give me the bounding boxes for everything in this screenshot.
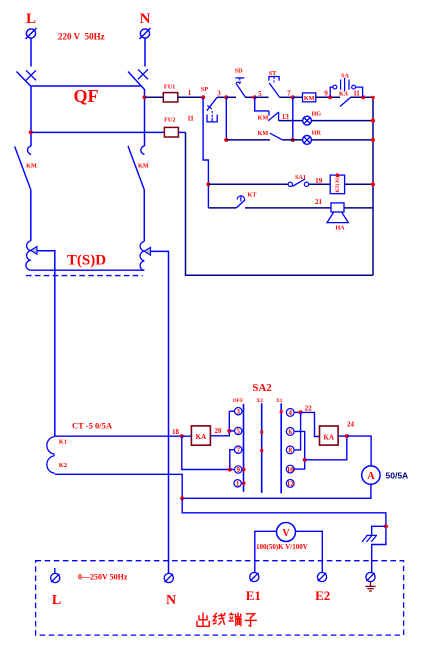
contact KA (self-hold) — [339, 91, 351, 107]
contact KM main N: fixed arc — [141, 146, 145, 155]
wire SD to node 5 — [245, 96, 255, 98]
contactor coil KM — [303, 93, 316, 102]
svg-text:E1: E1 — [246, 588, 261, 603]
wire row4 left — [208, 183, 288, 185]
pushbutton ST (start, NO) — [269, 70, 279, 97]
node 22 — [299, 405, 313, 415]
wire KA box to node 20 — [210, 411, 229, 436]
transformer wiper arrow left — [31, 247, 37, 255]
node: N pole to FU1 junction — [142, 95, 146, 99]
SA2 contact 4 — [286, 409, 300, 418]
SA2 contact 10 — [286, 460, 304, 474]
svg-text:KM: KM — [258, 115, 269, 122]
wire node18 to KA box — [182, 435, 192, 437]
svg-text:6: 6 — [288, 428, 292, 436]
svg-text:L: L — [26, 11, 36, 27]
pressure switch SP — [201, 86, 217, 122]
wire node 5 down to row2 — [255, 97, 269, 111]
transformer T(S)D left winding — [26, 241, 31, 270]
wire row2 to lamp HG — [279, 120, 303, 122]
wire SP to node 3 — [217, 96, 226, 98]
SA2 contact 9 — [228, 466, 246, 474]
svg-text:QF: QF — [74, 86, 99, 106]
wire KM main N to transformer — [143, 189, 145, 241]
SA2 contact 8 — [286, 446, 294, 455]
svg-text:12: 12 — [287, 480, 295, 488]
ammeter A — [362, 466, 380, 484]
breaker QF pole L: blade — [17, 72, 31, 87]
svg-text:CT -5 0/5A: CT -5 0/5A — [72, 421, 113, 431]
wire FU2 to control bottom rail — [186, 132, 374, 275]
wire lamp HG to right rail — [311, 120, 373, 122]
node rail row3 — [371, 138, 375, 142]
lamp HG — [303, 110, 322, 125]
terminal L (bottom) — [51, 573, 62, 608]
wire node 18 down to SA2 row — [182, 436, 230, 469]
wire contact 8 up to node 22 — [294, 412, 301, 450]
transformer wiper arrow right — [144, 247, 150, 255]
wire node 7 down to row3 — [292, 97, 294, 140]
wire right rail node 11 — [372, 97, 374, 275]
svg-text:SA2: SA2 — [252, 382, 272, 394]
svg-text:100(50)K V/100V: 100(50)K V/100V — [256, 543, 308, 551]
svg-text:FU2: FU2 — [164, 117, 175, 124]
svg-text:L: L — [52, 593, 61, 608]
wire right tap — [151, 251, 169, 573]
svg-text:24: 24 — [347, 421, 355, 429]
svg-text:220 V 50Hz: 220 V 50Hz — [58, 32, 105, 42]
terminal L (top) — [26, 11, 37, 39]
svg-text:18: 18 — [172, 428, 180, 436]
wire junction to node 24 — [305, 436, 347, 460]
node chassis ground tap — [384, 524, 388, 528]
svg-text:KM: KM — [26, 163, 37, 170]
node: FU2 tap junction — [29, 130, 33, 134]
SA2 contact 12 — [286, 480, 294, 489]
terminal N (top) — [140, 11, 151, 39]
wire K1 — [55, 435, 182, 437]
current transformer CT-50/5A — [47, 421, 113, 474]
wire node 3 down to row3 — [225, 97, 227, 140]
node rail row4 — [371, 182, 375, 186]
node rail row2 — [371, 119, 375, 123]
terminal N (bottom) — [164, 573, 176, 608]
svg-text:HR: HR — [312, 130, 322, 137]
SA2 X2 bar contact marks — [260, 430, 263, 452]
svg-text:A: A — [367, 471, 375, 482]
svg-text:N: N — [166, 593, 176, 608]
svg-text:V: V — [282, 528, 290, 539]
svg-text:N: N — [140, 11, 151, 27]
terminal PE earth — [366, 572, 375, 581]
svg-text:1: 1 — [236, 480, 240, 488]
contact KT (delayed NO) — [236, 191, 257, 208]
svg-text:3: 3 — [217, 90, 221, 98]
wire ammeter return — [182, 484, 371, 498]
node K2 ground junction — [180, 496, 184, 500]
char 出 — [197, 613, 209, 627]
svg-text:3: 3 — [236, 408, 240, 416]
wire voltmeter to E1 — [255, 531, 277, 573]
svg-text:SP: SP — [201, 86, 208, 93]
relay coil KA (current relay) — [191, 426, 210, 445]
contact KM main N: blade — [128, 146, 144, 189]
wire KM main L to transformer — [30, 189, 32, 241]
svg-text:22: 22 — [305, 405, 313, 413]
wire KT box to right rail — [345, 183, 373, 185]
wire L pole to FU2 — [31, 131, 164, 133]
svg-text:4: 4 — [288, 409, 292, 417]
wire node 24 to ammeter — [347, 436, 371, 466]
SA2 X1 bar contact mark — [280, 410, 283, 413]
wire SA1 to timer KT box — [309, 183, 331, 185]
wire K2 junction down to earth line — [182, 498, 386, 573]
wire row3 to lamp HR — [283, 139, 303, 141]
contact KM NO (row3) — [258, 130, 283, 140]
switch SA1 — [288, 174, 309, 186]
terminal E1 — [246, 572, 261, 603]
svg-text:7: 7 — [236, 446, 240, 454]
svg-text:KT: KT — [248, 191, 258, 198]
svg-text:7: 7 — [287, 89, 291, 97]
node 18 — [172, 428, 184, 439]
node row4 left — [206, 182, 210, 186]
node 9 — [324, 89, 332, 99]
svg-text:21: 21 — [315, 198, 323, 206]
fuse FU1 — [163, 84, 203, 102]
wire K2 — [55, 474, 182, 498]
wire KT contact to buzzer HA — [245, 207, 331, 209]
wire lamp HR to right rail — [311, 139, 373, 141]
transformer winding bottom link — [31, 269, 145, 271]
svg-text:K2: K2 — [59, 462, 67, 469]
wire into L terminal (stub above) — [54, 568, 56, 573]
pushbutton SD (stop, NC) — [235, 68, 245, 98]
char 线 — [213, 613, 226, 625]
node 3 — [217, 90, 228, 100]
svg-text:HG: HG — [311, 110, 321, 117]
wire buzzer HA to right rail — [344, 207, 373, 209]
wire node 22 to KA2 box — [301, 412, 320, 436]
svg-text:KM: KM — [138, 163, 149, 170]
terminal E2 — [315, 572, 330, 603]
svg-text:KM: KM — [304, 95, 315, 102]
char 端 — [229, 612, 242, 626]
voltmeter V — [277, 523, 296, 542]
svg-text:9: 9 — [236, 466, 240, 474]
SA2 X2 bar — [261, 403, 263, 493]
wire KA2 box to node 24 — [338, 435, 347, 437]
node 24 — [345, 421, 355, 439]
wire KA to node 11 — [351, 96, 374, 98]
svg-text:20: 20 — [215, 427, 223, 435]
svg-text:HA: HA — [335, 225, 345, 232]
earth symbol under PE — [365, 582, 375, 591]
wire N pole to FU1 — [145, 96, 164, 98]
SA2 left bar — [243, 404, 245, 492]
SA2 contact 3 — [229, 408, 243, 416]
relay coil KA2 (voltage relay) — [320, 426, 339, 445]
wire left tap — [37, 251, 55, 437]
contact KM main L: fixed arc — [28, 146, 32, 155]
svg-text:1: 1 — [188, 89, 192, 97]
svg-text:OFF: OFF — [233, 398, 244, 404]
switch SA (bypass plug) — [330, 72, 362, 97]
timer coil KT(JS) — [330, 173, 344, 193]
svg-text:KA: KA — [339, 91, 349, 98]
char 子 — [245, 614, 257, 626]
contact KM main L: blade — [15, 147, 31, 190]
svg-text:KA: KA — [324, 433, 335, 441]
svg-text:KA: KA — [196, 433, 207, 441]
wire ST to node 7 — [279, 96, 293, 98]
svg-text:SA: SA — [341, 72, 349, 79]
SA2 X1 bar — [280, 403, 282, 493]
wire N pole down — [144, 89, 146, 146]
svg-text:11: 11 — [187, 115, 194, 123]
svg-text:10: 10 — [287, 466, 295, 474]
transformer T(S)D right winding — [140, 241, 144, 270]
chassis ground symbol — [362, 535, 377, 541]
label 出线端子 (outlet terminals) — [197, 612, 257, 626]
lamp HR — [303, 130, 322, 145]
breaker QF pole L: X symbol — [26, 70, 36, 80]
svg-text:K1: K1 — [59, 438, 67, 445]
svg-text:SA1: SA1 — [295, 174, 306, 181]
svg-text:E2: E2 — [315, 588, 330, 603]
node 11 — [353, 90, 375, 100]
svg-text:KT(JS): KT(JS) — [334, 176, 341, 193]
svg-text:9: 9 — [324, 89, 328, 97]
svg-text:SD: SD — [235, 68, 243, 75]
wire node 5 to ST — [255, 96, 269, 98]
node row3 left — [224, 138, 228, 142]
wire node 3 to SD — [226, 96, 236, 98]
node row3 mid — [291, 138, 295, 142]
SA2 contact 7 — [230, 446, 244, 470]
wire voltmeter to E2 — [295, 531, 322, 573]
breaker QF pole N: X symbol — [138, 69, 148, 79]
svg-text:8: 8 — [288, 447, 292, 455]
contact KM NC (row2) — [258, 111, 279, 122]
wire to chassis ground — [372, 526, 386, 535]
breaker QF linkage bar — [31, 85, 141, 87]
node 7 — [287, 89, 295, 99]
svg-text:5: 5 — [236, 428, 240, 436]
wire row3 left — [226, 139, 270, 141]
svg-text:KM: KM — [258, 130, 269, 137]
terminal box dashed border — [36, 561, 404, 635]
transformer core dashed line — [26, 275, 143, 277]
wire row5 left — [208, 207, 236, 209]
SA2 contact 1 — [234, 480, 246, 488]
fuse FU2 — [164, 117, 185, 137]
node 6-10 junction — [303, 458, 307, 462]
svg-text:11: 11 — [353, 90, 360, 98]
node 5 — [253, 90, 263, 100]
svg-text:T(S)D: T(S)D — [67, 253, 106, 269]
breaker QF pole N: blade — [128, 72, 145, 90]
node SP junction — [201, 95, 205, 99]
svg-text:X2: X2 — [256, 398, 263, 404]
svg-text:FU1: FU1 — [164, 84, 175, 91]
svg-text:X1: X1 — [276, 398, 283, 404]
node 20 — [215, 427, 232, 435]
wire KM coil to node 9 — [316, 96, 340, 98]
wire node 7 to KM coil — [293, 96, 303, 98]
wire N terminal to QF — [144, 38, 146, 66]
svg-text:50/5A: 50/5A — [386, 471, 409, 481]
SA2 contact 5 — [229, 427, 243, 435]
svg-text:0—250V 50Hz: 0—250V 50Hz — [78, 573, 128, 582]
buzzer HA — [327, 203, 348, 232]
wire L pole down — [30, 86, 32, 146]
SA2 contact 6 — [286, 428, 304, 460]
wire node1 feeder down to rows 4,5 — [203, 97, 208, 208]
wire L terminal to QF — [30, 38, 32, 66]
